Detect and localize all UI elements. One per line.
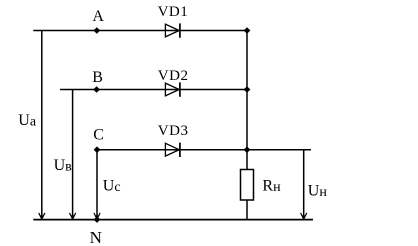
svg-text:Uв: Uв [54, 157, 73, 175]
svg-text:VD3: VD3 [158, 123, 189, 139]
svg-text:Uн: Uн [308, 183, 328, 201]
svg-text:N: N [90, 228, 102, 246]
svg-text:C: C [93, 127, 104, 144]
svg-text:VD2: VD2 [158, 68, 189, 84]
svg-text:B: B [92, 69, 103, 86]
svg-text:Rн: Rн [262, 177, 281, 195]
svg-text:Uа: Uа [18, 112, 37, 130]
svg-text:A: A [92, 8, 104, 25]
svg-text:Uс: Uс [103, 178, 121, 196]
svg-text:VD1: VD1 [158, 4, 189, 20]
